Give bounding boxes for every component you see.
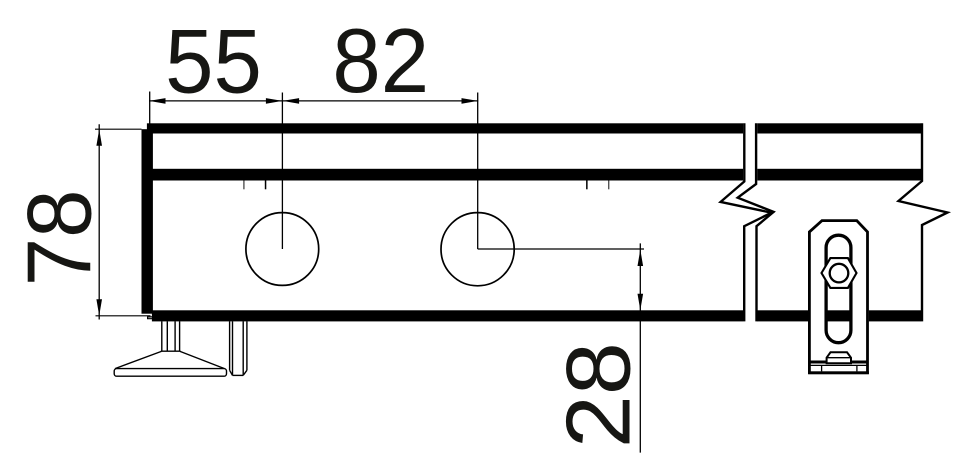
arrow 55 left (149, 98, 166, 104)
profile top flange bar (147, 123, 921, 133)
bracket base divider left (821, 365, 823, 371)
center/extension line circle 2 (477, 93, 479, 250)
leveling foot base plate (114, 369, 226, 377)
break line left edge (721, 123, 772, 321)
right end break edge (899, 123, 948, 321)
svg-text:28: 28 (548, 342, 649, 448)
leveling foot cone (115, 351, 225, 368)
svg-text:55: 55 (165, 11, 262, 112)
bracket clip line (827, 357, 851, 359)
break cut through top bar (743, 123, 757, 134)
svg-text:78: 78 (9, 190, 110, 287)
28 arrow down (638, 294, 644, 311)
arrow 82 left (283, 98, 300, 104)
top dimension line (149, 100, 478, 102)
tick mark 1 under inner bar (243, 181, 244, 190)
arrow 55 right (266, 98, 283, 104)
leveling foot stem (161, 321, 181, 351)
center/extension line circle 1 (281, 93, 283, 250)
bottom bar visible through slot (825, 310, 853, 321)
profile second (inner) bar (148, 169, 921, 181)
bracket nut (822, 258, 857, 288)
bracket base divider right (856, 365, 858, 371)
bracket clip trapezoid (827, 352, 851, 363)
bottom-left corner step (148, 317, 152, 319)
bracket bolt circle (830, 264, 849, 283)
hole circle 2 (441, 213, 514, 286)
arrow 82 right (462, 98, 479, 104)
hole circle 1 (246, 213, 319, 286)
28 dimension line (639, 243, 641, 452)
tick mark 3 under inner bar (586, 181, 588, 190)
profile bottom bar (152, 310, 921, 321)
left extension line (149, 92, 151, 125)
tick mark 4 under inner bar (608, 181, 609, 190)
bracket base bottom thick line (808, 371, 869, 374)
78 extension line bottom (96, 315, 151, 317)
78 arrow top (96, 129, 102, 146)
mounting bracket body (808, 219, 869, 374)
profile left wall (142, 129, 153, 314)
bracket body bottom thick line (809, 361, 867, 364)
svg-text:82: 82 (332, 10, 429, 111)
break line right edge (738, 123, 774, 321)
break cut through bottom bar (743, 310, 757, 322)
tick mark 2 under inner bar (265, 181, 267, 190)
78 extension line top (95, 128, 142, 130)
bracket outer outline (809, 221, 867, 374)
bracket base thin line (809, 364, 867, 366)
28 arrow up (638, 250, 644, 267)
78 dimension line (98, 124, 100, 319)
anchor pin (230, 321, 247, 375)
bracket slot (826, 235, 851, 343)
78 arrow bottom (96, 299, 102, 316)
break cut through inner bar (743, 168, 757, 181)
28 leader line from circle 2 center (478, 248, 644, 250)
